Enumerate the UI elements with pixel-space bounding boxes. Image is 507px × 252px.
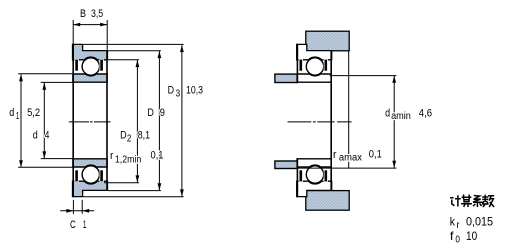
shaft shoulder block bottom	[275, 161, 298, 169]
d1 arrow down	[19, 160, 23, 167]
d1 extension line bottom	[18, 166, 72, 168]
shields lower	[299, 170, 328, 182]
D extension line top	[108, 50, 161, 52]
da arrow up	[392, 76, 396, 83]
svg-text:0,1: 0,1	[369, 149, 382, 161]
svg-text:amax: amax	[339, 153, 362, 164]
svg-text:C: C	[70, 219, 76, 231]
C dimension line	[60, 210, 94, 212]
svg-text:d: d	[9, 107, 14, 119]
D3 extension line top	[83, 43, 184, 45]
d1 arrow up	[19, 74, 23, 81]
D2 extension line bottom	[104, 182, 139, 184]
da dimension line	[393, 76, 395, 168]
housing face extension line (ra)	[348, 51, 350, 168]
D2 arrow down	[136, 175, 140, 182]
shields upper	[299, 59, 328, 71]
svg-text:8,1: 8,1	[138, 130, 150, 142]
ball, upper	[82, 58, 99, 75]
B arrow left	[73, 23, 80, 27]
svg-text:D: D	[147, 107, 154, 119]
B arrow right	[100, 23, 107, 27]
da extension line bottom	[297, 167, 396, 169]
d extension line bottom	[41, 158, 73, 160]
svg-text:5,2: 5,2	[27, 107, 40, 119]
svg-text:10,3: 10,3	[186, 85, 203, 97]
B width extension line right	[106, 20, 108, 50]
D2 extension line top	[108, 59, 139, 61]
outer ring lower	[297, 181, 332, 196]
inner ring, lower half	[73, 159, 107, 167]
svg-text:k: k	[450, 214, 456, 228]
D arrow up	[158, 51, 162, 58]
svg-text:0: 0	[455, 235, 460, 246]
right face line right view	[330, 50, 332, 191]
B dimension line	[73, 24, 107, 26]
da arrow down	[392, 161, 396, 168]
inner ring, upper half	[73, 74, 107, 82]
D3 arrow up	[180, 45, 184, 52]
C arrow pointing left	[82, 209, 89, 213]
shaft shoulder block top	[275, 74, 298, 82]
ball upper	[306, 58, 323, 75]
D dimension line	[158, 51, 160, 190]
D3 dimension line	[181, 45, 183, 196]
centerline right view	[288, 121, 352, 123]
svg-text:d: d	[33, 129, 38, 141]
outer ring with flange, upper half	[73, 44, 108, 59]
inner ring lower	[297, 159, 331, 167]
right face line	[106, 50, 108, 191]
d1 extension line top	[18, 73, 72, 75]
svg-text:4,6: 4,6	[419, 107, 432, 119]
left face line	[72, 44, 74, 198]
d extension line top	[41, 81, 73, 83]
svg-text:0,1: 0,1	[151, 150, 164, 162]
centerline left view	[69, 121, 111, 123]
shields, upper	[75, 59, 104, 71]
C arrow pointing right	[66, 209, 73, 213]
C extension line right	[81, 200, 83, 214]
svg-text:3,5: 3,5	[91, 8, 103, 20]
char 3 xi	[473, 196, 482, 207]
svg-text:B: B	[80, 8, 86, 20]
ball lower	[306, 166, 323, 183]
svg-text:d: d	[385, 107, 390, 119]
d1 dimension line	[20, 74, 22, 167]
B width extension line left	[72, 20, 74, 44]
housing block bottom	[306, 191, 349, 211]
svg-text:1: 1	[16, 111, 20, 122]
svg-text:amin: amin	[391, 111, 411, 122]
D3 arrow down	[180, 189, 184, 196]
housing block top	[306, 31, 349, 51]
svg-text:2: 2	[127, 133, 132, 144]
svg-text:1,2min: 1,2min	[115, 154, 141, 165]
char 4 shu	[483, 195, 494, 206]
d arrow down	[42, 151, 46, 158]
left face line right view	[296, 44, 298, 198]
char 2 suan	[462, 195, 471, 206]
inner ring upper	[297, 74, 331, 82]
svg-text:10: 10	[466, 229, 477, 243]
C extension line left	[72, 200, 74, 214]
D2 arrow up	[136, 60, 140, 67]
svg-text:3: 3	[176, 88, 181, 99]
svg-text:9: 9	[160, 107, 165, 119]
svg-text:D: D	[168, 85, 175, 97]
d dimension line	[43, 83, 45, 159]
svg-text:4: 4	[45, 129, 50, 141]
shields, lower	[75, 170, 104, 182]
bearing outline right view: outer ring upper	[297, 44, 332, 59]
D extension line bottom	[108, 190, 161, 192]
svg-text:D: D	[120, 130, 127, 142]
D3 extension line bottom	[83, 196, 184, 198]
char 1 ji (calc)	[451, 196, 460, 206]
svg-text:1: 1	[83, 219, 87, 231]
D2 dimension line	[136, 60, 138, 182]
da extension line top	[330, 75, 397, 77]
svg-text:0,015: 0,015	[466, 214, 493, 228]
d arrow up	[42, 83, 46, 90]
svg-text:r: r	[333, 149, 337, 161]
svg-text:r: r	[110, 150, 114, 162]
ball, lower	[82, 166, 99, 183]
CJK heading: calculation factors (drawn strokes)	[451, 195, 494, 206]
outer ring with flange, lower half	[73, 181, 108, 196]
D arrow down	[158, 183, 162, 190]
